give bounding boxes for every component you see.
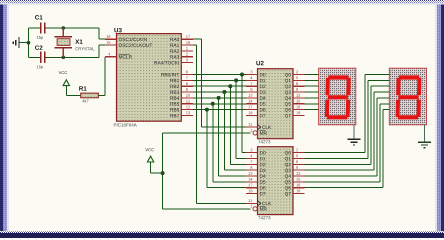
U3 PIC16F84A body	[117, 34, 182, 122]
ground	[13, 37, 19, 48]
U2 pin 4 D1	[246, 76, 266, 82]
value CRYSTAL	[75, 47, 94, 50]
capacitor C1	[41, 23, 45, 34]
power VCC (R1)	[59, 71, 70, 95]
wire RB5 down to lower 74273 D5	[213, 104, 246, 182]
wire lower Q5 to display 2	[305, 104, 390, 182]
U2 pin 5 Q1	[285, 76, 305, 83]
wire Q5 to display 1	[305, 103, 319, 105]
wire VCC to MR rail	[151, 172, 163, 174]
wire crystal node to OSC2 (corner)	[99, 45, 105, 57]
node junction RB2 bus	[228, 84, 232, 88]
node junction RB0 bus	[240, 73, 244, 77]
node junction VCC / MR rail	[161, 171, 165, 175]
U2 pin 16 Q6	[285, 106, 305, 113]
capacitor C2	[41, 52, 45, 63]
node junction RB5 bus	[211, 102, 215, 106]
wire lower Q2 to display 2	[305, 86, 390, 164]
label U2	[256, 61, 263, 65]
U2 pin 8 D3	[246, 88, 266, 94]
value 15p (C2)	[37, 65, 43, 69]
U1 pin 13 D4	[246, 172, 266, 178]
U3 pin 6 RB0/INT	[161, 70, 193, 76]
wire crystal node to OSC1 (corner)	[99, 28, 105, 39]
value 15p (C1)	[37, 36, 43, 40]
wire Q3 to display 1	[305, 91, 319, 93]
wire left vertical rail	[28, 28, 30, 57]
U2 pin 12 Q4	[285, 94, 305, 101]
node junction crystal bottom	[62, 56, 66, 60]
wire Q4 to display 1	[305, 97, 319, 99]
U3 pin 16 OSC1/CLKIN	[105, 35, 147, 41]
U2 pin 13 D4	[246, 94, 266, 100]
wire RB3 down to lower 74273 D3	[224, 92, 245, 170]
U2 pin 14 D5	[246, 100, 266, 106]
label C2	[35, 45, 42, 49]
wire Q6 to display 1	[305, 109, 319, 111]
U1 pin 18 D7	[246, 190, 266, 196]
wire RB2 to U2 D2	[193, 85, 246, 87]
U1 pin 16 Q6	[285, 184, 305, 191]
label U3	[114, 28, 121, 32]
ground (display 1)	[348, 139, 361, 145]
U3 pin 10 RB4	[170, 94, 193, 100]
node junction left rail / ground	[27, 41, 31, 45]
7-segment digit 8 (DISP2)	[396, 75, 422, 119]
wire lower Q0 to display 2	[305, 75, 390, 153]
U1 pin 3 D0	[246, 149, 266, 155]
74273 U1 body	[258, 147, 294, 215]
frame bottom band	[0, 231, 444, 233]
U3 pin 1 RA2	[170, 47, 193, 53]
wire RB0 down to lower 74273 D0	[242, 75, 246, 153]
U3 pin 3 RA4/TOCKI	[154, 59, 193, 65]
wire bottom rail C2 to crystal node	[29, 56, 100, 58]
wire display 2 common to ground	[424, 125, 426, 142]
7-segment digit 8 (DISP1)	[325, 75, 351, 119]
U2 pin 2 Q0	[285, 70, 305, 77]
value 74273 (U1)	[258, 216, 270, 219]
value 4k7 (R1)	[82, 100, 88, 103]
ground (display 2)	[418, 142, 431, 148]
wire RA0 to U2 CLK	[193, 39, 246, 127]
U3 pin 8 RB2	[170, 82, 193, 88]
wire RB4 down to lower 74273 D4	[219, 98, 246, 176]
resistor R1	[81, 93, 99, 98]
node junction RB4 bus	[217, 96, 221, 100]
U2 pin 15 Q5	[285, 100, 305, 107]
wire lower Q3 to display 2	[305, 92, 390, 170]
node junction RB1 bus	[234, 78, 238, 82]
U3 pin 12 RB6	[170, 106, 193, 112]
frame right band	[435, 0, 437, 238]
value PIC16F84A	[114, 123, 137, 126]
U3 pin 2 RA3	[170, 53, 193, 59]
value 74273 (U2)	[258, 140, 270, 143]
wire VCC to R1	[66, 94, 80, 96]
U2 pin 19 Q7	[285, 111, 305, 118]
wire to U2 MR	[163, 132, 251, 134]
U3 pin 18 RA1	[170, 41, 193, 47]
ground wire	[19, 42, 29, 44]
74273 U2 body	[258, 69, 294, 139]
U3 pin 17 RA0	[170, 35, 193, 41]
U3 pin 4 MCLR	[105, 53, 132, 59]
U2 pin 1 MR	[251, 129, 267, 135]
node junction RB3 bus	[222, 90, 226, 94]
crystal X1	[54, 28, 72, 57]
wire lower Q4 to display 2	[305, 98, 390, 176]
label C1	[35, 15, 43, 19]
U1 pin 15 Q5	[285, 178, 305, 185]
U2 pin 7 D2	[246, 82, 266, 88]
wire RB6 down to lower 74273 D6	[207, 110, 246, 188]
wire RB4 to U2 D4	[193, 97, 246, 99]
wire lower Q6 to display 2	[305, 110, 390, 188]
wire display 1 common to ground	[353, 125, 355, 139]
frame top band	[0, 0, 444, 3]
wire Q1 to display 1	[305, 79, 319, 81]
U1 pin 9 Q3	[285, 166, 305, 173]
wire R1 to MCLR	[98, 57, 104, 96]
U1 pin 11 CLK	[246, 199, 271, 206]
7-segment display DISP2 body	[389, 68, 426, 125]
7-segment display DISP1 body	[319, 68, 356, 125]
U2 pin 18 D7	[246, 111, 266, 117]
power VCC (MR)	[145, 148, 154, 173]
wire top rail C1 to crystal node	[29, 27, 100, 29]
label R1	[79, 86, 86, 90]
wire to lower 74273 MR	[163, 208, 251, 210]
U1 pin 1 MR	[251, 205, 267, 211]
wire MR rail vertical	[162, 133, 164, 209]
node junction crystal top	[62, 26, 66, 30]
U3 pin 7 RB1	[170, 76, 193, 82]
wire RB2 down to lower 74273 D2	[230, 86, 246, 164]
U2 pin 9 Q3	[285, 88, 305, 95]
U2 pin 6 Q2	[285, 82, 305, 89]
wire RB1 to U2 D1	[193, 79, 246, 81]
U1 pin 7 D2	[246, 160, 266, 166]
wire lower Q1 to display 2	[305, 80, 390, 158]
U3 pin 13 RB7	[170, 111, 193, 117]
wire RB3 to U2 D3	[193, 91, 246, 93]
U1 pin 8 D3	[246, 166, 266, 172]
wire RB5 to U2 D5	[193, 103, 246, 105]
U3 pin 9 RB3	[170, 88, 193, 94]
U2 pin 3 D0	[246, 70, 266, 76]
U1 pin 2 Q0	[285, 149, 305, 156]
U1 pin 14 D5	[246, 178, 266, 184]
U2 pin 11 CLK	[246, 123, 271, 130]
wire RB6 to U2 D6	[193, 109, 246, 111]
U1 pin 4 D1	[246, 154, 266, 160]
U1 pin 5 Q1	[285, 154, 305, 161]
wire RB1 down to lower 74273 D1	[236, 80, 246, 158]
wire Q2 to display 1	[305, 85, 319, 87]
U3 pin 15 OSC2/CLKOUT	[105, 41, 152, 47]
U1 pin 6 Q2	[285, 160, 305, 167]
label X1	[75, 40, 82, 44]
U1 pin 19 Q7	[285, 190, 305, 197]
wire RB0 to U2 D0	[193, 74, 246, 76]
node junction RB6 bus	[205, 108, 209, 112]
U2 pin 17 D6	[246, 106, 266, 112]
U3 pin 11 RB5	[170, 100, 193, 106]
wire Q0 to display 1	[305, 74, 319, 76]
frame left band	[0, 0, 3, 238]
U1 pin 12 Q4	[285, 172, 305, 179]
U1 pin 17 D6	[246, 184, 266, 190]
wire RA1 to lower 74273 CLK	[193, 45, 247, 203]
